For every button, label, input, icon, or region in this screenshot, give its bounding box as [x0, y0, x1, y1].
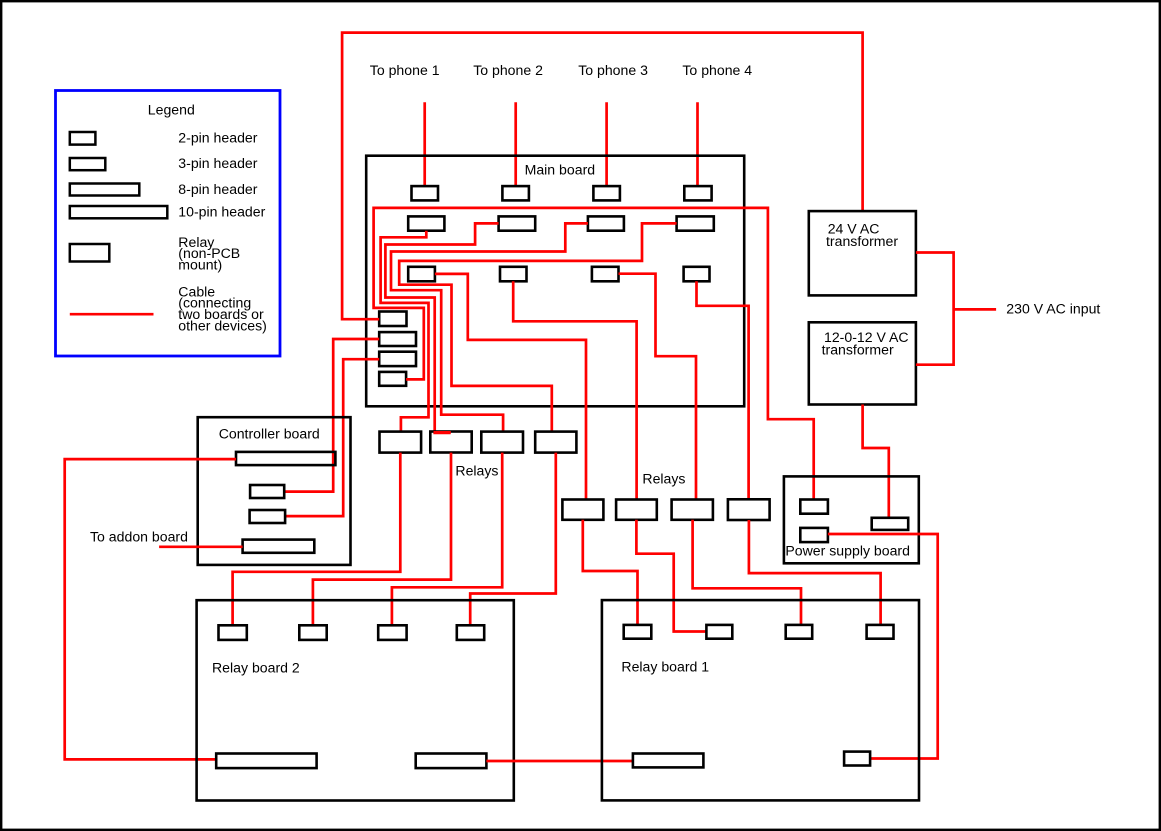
svg-text:Controller board: Controller board	[219, 425, 320, 441]
main board row3 header B1 (2-pin)	[408, 267, 435, 282]
wire 230V loop joining transformers	[916, 253, 954, 365]
wire row3 B2 to relay R6	[513, 281, 636, 499]
main board row3 header B3 (2-pin)	[592, 267, 619, 282]
wire relay board 2 to relay board 1 (bottom headers)	[486, 760, 633, 763]
controller 2-pin header C2	[250, 485, 284, 498]
wire header L2 to controller board	[284, 339, 379, 492]
main board row2 header A3 (3-pin)	[588, 216, 624, 230]
main board row2 header A2 (3-pin)	[499, 216, 536, 230]
controller board	[198, 417, 351, 565]
wire relay R1 to relay board 2 header 1	[233, 453, 401, 626]
relay board 1 header 3 (2-pin)	[786, 625, 813, 639]
wire relay R3 to relay board 2 header 3	[392, 453, 502, 626]
wire power supply S2 to relay board 1 2-pin	[828, 534, 938, 759]
main board phone header P4 (2-pin)	[684, 186, 711, 200]
wire 12-0-12 transformer to power supply board	[863, 405, 889, 518]
wire nest: row2 A3 to relay R3	[391, 223, 588, 431]
wire row3 B1 to relay R5	[435, 274, 586, 500]
legend cable swatch	[70, 313, 154, 316]
legend 2-pin header swatch	[70, 132, 96, 145]
main board left column header L4 (2-pin)	[379, 372, 406, 386]
main board row3 header B4 (2-pin)	[684, 267, 710, 282]
relay board 1 header 4 (2-pin)	[867, 625, 894, 639]
svg-text:Relays: Relays	[642, 471, 685, 487]
24 V AC transformer	[809, 211, 916, 295]
wire controller 10-pin to relay board 2	[65, 459, 236, 759]
relay R1	[380, 432, 422, 453]
main board row3 header B2 (2-pin)	[500, 267, 527, 282]
relay board 2	[197, 600, 514, 800]
svg-text:2-pin header: 2-pin header	[178, 130, 257, 146]
legend box	[56, 91, 281, 357]
relay R4	[535, 432, 576, 453]
relay board 2 header 3 (2-pin)	[378, 625, 406, 640]
relay board 1	[602, 600, 919, 800]
relay board 2 header 4 (2-pin)	[457, 625, 484, 640]
relay R6	[616, 500, 657, 520]
svg-text:8-pin header: 8-pin header	[178, 181, 257, 197]
relay R5	[562, 500, 603, 520]
wire phone 2 to main board header	[514, 102, 517, 186]
wire nest: row2 A2 to relay R2	[385, 223, 498, 433]
relay R8	[728, 499, 770, 520]
main board phone header P2 (2-pin)	[502, 186, 529, 200]
wire row3 B4 to relay R8	[697, 281, 749, 499]
main board row2 header A1 (3-pin)	[408, 216, 444, 230]
wire header L3 to controller board	[285, 359, 379, 516]
controller 2-pin header C3	[250, 510, 286, 523]
svg-text:To phone 2: To phone 2	[473, 62, 543, 78]
legend 3-pin header swatch	[70, 158, 106, 170]
main board	[366, 156, 744, 407]
relay R3	[481, 432, 523, 453]
svg-text:Main board: Main board	[525, 161, 596, 177]
power supply header S1 (2-pin)	[800, 500, 828, 514]
relay board 1 bottom 2-pin header	[844, 752, 870, 766]
svg-text:Relay board 1: Relay board 1	[621, 658, 709, 674]
svg-text:To addon board: To addon board	[90, 528, 188, 544]
wire relay R7 to relay board 1 header 3	[693, 520, 801, 625]
relay board 1 header 2 (2-pin)	[706, 625, 732, 639]
main board phone header P1 (2-pin)	[412, 186, 439, 200]
main board left column header L1 (2-pin)	[379, 312, 406, 327]
svg-text:To phone 1: To phone 1	[370, 62, 440, 78]
svg-text:230 V AC input: 230 V AC input	[1006, 301, 1100, 317]
wire phone 4 to main board header	[696, 102, 699, 186]
wire relay R8 to relay board 1 header 4	[749, 520, 881, 625]
main board left column header L2 (3-pin)	[379, 332, 416, 346]
power supply header S3 (3-pin)	[872, 518, 909, 530]
svg-text:To phone 4: To phone 4	[682, 62, 752, 78]
power supply board	[784, 476, 919, 563]
wire nest: row2 A1 to relay R1	[381, 231, 429, 432]
relay R7	[672, 500, 713, 520]
main board left column header L3 (3-pin)	[379, 352, 416, 366]
wire phone 3 to main board header	[605, 102, 608, 186]
legend 8-pin header swatch	[70, 184, 140, 196]
wire relay R5 to relay board 1 header 1	[583, 520, 638, 625]
wire relay R6 to relay board 1 header 2	[636, 520, 706, 632]
wire relay R4 to relay board 2 header 4	[470, 453, 556, 626]
main board row2 header A4 (3-pin)	[677, 216, 714, 230]
wire relay R2 to relay board 2 header 2	[313, 453, 451, 626]
power supply header S2 (2-pin)	[800, 528, 828, 542]
svg-text:Relay board 2: Relay board 2	[212, 659, 300, 675]
svg-text:3-pin header: 3-pin header	[178, 155, 257, 171]
wire row3 B3 to relay R7	[619, 274, 697, 500]
controller bottom 10-pin header	[243, 540, 315, 553]
main board phone header P3 (2-pin)	[593, 186, 620, 200]
12-0-12 V AC transformer	[809, 322, 916, 404]
legend relay swatch	[70, 244, 110, 262]
svg-text:Legend: Legend	[148, 102, 195, 118]
legend 10-pin header swatch	[70, 206, 168, 218]
wire 230V input stub	[954, 308, 997, 311]
wire long line: header L4 to power supply header via right side	[374, 208, 814, 500]
wire top loop: 24V transformer to header L1	[342, 33, 863, 320]
relay board 2 bottom 10-pin header	[216, 754, 316, 769]
svg-text:Power supply board: Power supply board	[785, 543, 910, 559]
relay board 2 header 2 (2-pin)	[299, 625, 326, 640]
relay board 2 header 1 (2-pin)	[219, 625, 247, 640]
svg-text:10-pin header: 10-pin header	[178, 204, 265, 220]
wire nest: row2 A4 to relay R4	[399, 223, 676, 431]
svg-text:To phone 3: To phone 3	[578, 62, 648, 78]
relay board 1 bottom 8-pin header	[633, 754, 704, 768]
wire addon stub	[159, 545, 243, 548]
wire phone 1 to main board header	[423, 102, 426, 186]
svg-text:Relays: Relays	[455, 463, 498, 479]
relay board 1 header 1 (2-pin)	[624, 625, 652, 639]
relay R2	[430, 432, 471, 453]
controller 10-pin header	[236, 452, 335, 465]
relay board 2 bottom 8-pin header	[416, 754, 487, 769]
wire overlay on relay R2 top edge	[434, 431, 451, 434]
